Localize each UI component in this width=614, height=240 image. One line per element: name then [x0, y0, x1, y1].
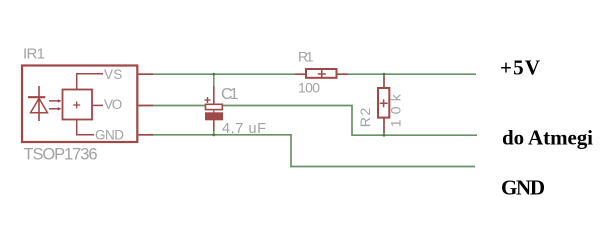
junction at C1 top: [212, 73, 215, 76]
junction at R2 top: [383, 73, 386, 76]
junction at R2 bottom: [383, 134, 386, 137]
svg-text:100: 100: [298, 80, 320, 96]
net GND wire: [139, 135, 475, 167]
svg-text:TSOP1736: TSOP1736: [24, 145, 98, 163]
photodiode triangle: [31, 98, 48, 112]
net +5V wire: [139, 73, 476, 75]
VO internal lead: [92, 104, 103, 106]
VS internal lead: [77, 74, 103, 90]
svg-text:GND: GND: [501, 175, 545, 199]
IR1 pin stub VO: [138, 105, 154, 107]
IR1 origin cross: [73, 102, 80, 109]
IR arrow 2: [49, 107, 62, 110]
resistor R2: [378, 76, 389, 133]
svg-text:R1: R1: [298, 49, 314, 65]
svg-text:C1: C1: [221, 86, 239, 103]
IR1 pin stub VS: [138, 73, 154, 75]
svg-text:VS: VS: [104, 67, 122, 82]
svg-text:IR1: IR1: [23, 46, 45, 63]
photodiode axis: [38, 86, 40, 121]
GND internal lead: [77, 120, 94, 135]
svg-text:10k: 10k: [388, 93, 404, 127]
IR arrow 1: [49, 99, 62, 103]
demodulator box: [63, 90, 93, 120]
IR1 pin stub GND: [138, 134, 154, 136]
net VO wire: [139, 106, 477, 136]
resistor R1: [295, 69, 348, 78]
svg-text:4,7 uF: 4,7 uF: [222, 121, 266, 137]
wire C1 branch: [213, 74, 215, 135]
wire R2 branch: [383, 74, 385, 135]
svg-text:do Atmegi: do Atmegi: [502, 126, 593, 150]
svg-text:+5V: +5V: [500, 55, 540, 79]
capacitor C1: [205, 86, 224, 131]
junction at C1 bottom: [212, 134, 215, 137]
svg-text:GND: GND: [95, 128, 124, 143]
IR1 frame: [22, 66, 137, 143]
photodiode cathode bar: [28, 96, 45, 98]
svg-text:R2: R2: [357, 107, 373, 127]
svg-text:VO: VO: [104, 97, 122, 112]
